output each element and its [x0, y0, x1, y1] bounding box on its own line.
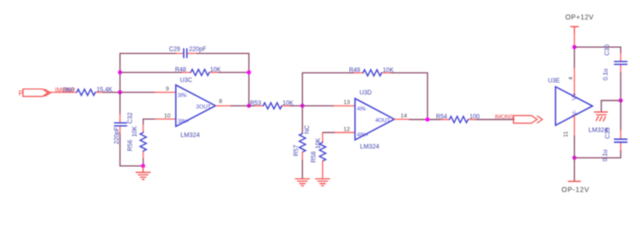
- wire C33 to node E: [574, 151, 620, 158]
- resistor R57 (NC): [301, 106, 303, 134]
- resistor R53: [255, 105, 263, 107]
- wire R54 to port: [476, 119, 514, 121]
- capacitor C33: [620, 131, 622, 140]
- svg-text:U3D: U3D: [360, 89, 373, 96]
- svg-text:U3C: U3C: [180, 77, 193, 84]
- wire R56 bottom to ground node: [142, 159, 144, 166]
- svg-text:10K: 10K: [315, 138, 322, 149]
- wire R49 feedback loop: [302, 73, 354, 106]
- svg-text:R60: R60: [63, 87, 75, 94]
- node D junction: [619, 98, 623, 102]
- svg-text:R58: R58: [310, 151, 317, 163]
- svg-text:OP+12V: OP+12V: [565, 15, 593, 22]
- svg-text:C30: C30: [604, 44, 611, 56]
- svg-text:8: 8: [219, 99, 222, 105]
- svg-text:R54: R54: [436, 113, 448, 120]
- pin 9 stub: [155, 91, 176, 93]
- junction output node: [247, 104, 251, 108]
- svg-text:3IN+: 3IN+: [178, 119, 189, 125]
- wire pin8 to R53: [231, 105, 255, 107]
- resistor R48: [183, 71, 191, 73]
- ground node junction: [141, 164, 145, 168]
- port IMONS (output): [514, 116, 543, 124]
- wire R53 to node B / pin 13: [290, 105, 334, 107]
- wire C30 to node D: [620, 73, 622, 101]
- svg-text:3IN-: 3IN-: [178, 93, 188, 99]
- svg-text:4: 4: [568, 76, 574, 80]
- svg-text:9: 9: [166, 87, 169, 93]
- ground (stage 1): [136, 166, 150, 180]
- wire +12V rail: [573, 33, 575, 47]
- capacitor C30: [620, 53, 622, 62]
- resistor R60: [69, 91, 77, 93]
- wire node D to ground: [601, 101, 620, 113]
- svg-text:3OUT: 3OUT: [196, 105, 212, 111]
- svg-text:10K: 10K: [383, 67, 394, 74]
- svg-text:R48: R48: [175, 67, 187, 74]
- pin 13 stub: [334, 105, 355, 107]
- svg-text:12: 12: [344, 127, 350, 133]
- svg-text:4OUT: 4OUT: [375, 118, 391, 124]
- resistor R54: [441, 119, 449, 121]
- svg-text:4IN-: 4IN-: [357, 107, 367, 113]
- wire R60 to node A / pin 9: [103, 91, 155, 93]
- node B junction: [300, 104, 304, 108]
- wire pin11 to node E: [573, 136, 575, 158]
- wire port to R60: [48, 91, 69, 93]
- capacitor C32: [119, 115, 121, 123]
- wire pin14 to node C: [410, 119, 442, 121]
- svg-text:10: 10: [164, 113, 170, 119]
- capacitor C29: [177, 52, 184, 54]
- svg-text:R57: R57: [293, 144, 300, 156]
- resistor R49: [354, 72, 363, 74]
- wire node D to C33: [620, 101, 622, 131]
- wire node A down to C32: [119, 92, 121, 114]
- node E junction: [572, 156, 576, 160]
- svg-text:V+: V+: [573, 92, 579, 100]
- pin 8 output stub: [216, 105, 232, 107]
- svg-text:0.1u: 0.1u: [603, 69, 610, 81]
- node C junction: [425, 117, 429, 121]
- svg-text:IMONS: IMONS: [495, 114, 514, 120]
- resistor R58: [322, 133, 324, 143]
- svg-text:220pF: 220pF: [113, 127, 120, 145]
- op-amp U3C: [176, 85, 216, 126]
- svg-text:OP-12V: OP-12V: [562, 187, 590, 194]
- pin 4 stub: [573, 68, 575, 97]
- svg-text:10K: 10K: [132, 126, 139, 137]
- wire C29 rail: [120, 52, 177, 54]
- svg-text:U3E: U3E: [548, 78, 560, 85]
- svg-text:C32: C32: [127, 112, 134, 124]
- pin 14 output stub: [394, 118, 409, 120]
- svg-text:11: 11: [563, 131, 569, 137]
- node A junction: [118, 90, 122, 94]
- svg-text:R56: R56: [127, 139, 134, 151]
- svg-text:10K: 10K: [210, 67, 221, 74]
- op-amp U3D: [355, 99, 394, 140]
- svg-text:4IN+: 4IN+: [357, 133, 368, 139]
- svg-text:LM324: LM324: [589, 127, 609, 134]
- svg-text:13: 13: [344, 100, 350, 106]
- wire feedback right vertical: [248, 53, 250, 105]
- junction +12V: [572, 45, 576, 49]
- wire +12V to C30: [574, 47, 620, 53]
- ground (R58): [316, 179, 330, 186]
- power OP-12V: [573, 158, 575, 182]
- svg-text:LM324: LM324: [181, 132, 201, 139]
- junction at R48 rail left: [118, 70, 122, 74]
- svg-text:V-: V-: [573, 110, 579, 116]
- svg-text:R53: R53: [250, 100, 262, 107]
- earth ground (right): [594, 112, 607, 121]
- pin 10 wire: [143, 118, 155, 120]
- op-amp U3E (power unit): [556, 87, 593, 126]
- svg-text:220pF: 220pF: [189, 46, 207, 53]
- wire pin10 down to R56: [142, 119, 144, 124]
- pin 11 stub: [573, 116, 575, 137]
- resistor R56: [142, 124, 144, 132]
- ground (R57): [295, 179, 309, 186]
- svg-text:NC: NC: [304, 125, 311, 134]
- svg-text:14: 14: [401, 113, 408, 119]
- svg-text:0.1u: 0.1u: [602, 150, 609, 162]
- svg-text:R49: R49: [349, 67, 361, 74]
- svg-text:C29: C29: [169, 46, 181, 53]
- wire C32 bottom to ground node: [120, 135, 143, 166]
- pin 12 wire: [323, 132, 335, 134]
- wire R48 rail: [120, 71, 183, 73]
- svg-text:LM324: LM324: [360, 144, 380, 151]
- junction right rail: [247, 70, 251, 74]
- wire node A up to feedback rails: [119, 53, 121, 92]
- svg-text:P: P: [19, 89, 24, 98]
- port P (input, left): [23, 89, 51, 96]
